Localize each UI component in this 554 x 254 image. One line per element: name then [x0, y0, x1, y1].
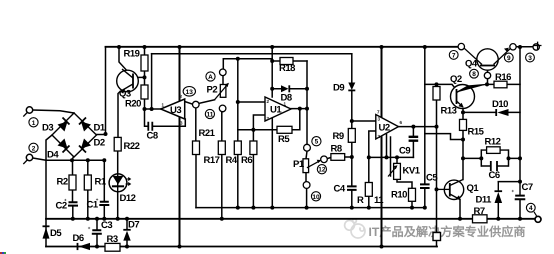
- potentiometer P1: [303, 159, 309, 173]
- wire R21 riser and lead: [195, 108, 197, 208]
- capacitor C6: [481, 165, 508, 167]
- wire U1 input upper: [238, 101, 265, 103]
- wire AC2 line y160: [33, 158, 105, 160]
- junction dots AC input net: [70, 158, 74, 162]
- wire R4 lead: [237, 155, 239, 208]
- node label circled 4: [526, 203, 535, 212]
- wire R20 bottom to U3 input: [145, 99, 161, 109]
- LED D12: [109, 174, 127, 192]
- wire top supply bus: [106, 46, 459, 48]
- wire bus A minus rail: [46, 218, 535, 220]
- wire Q1 emitter to bus A: [459, 200, 461, 219]
- svg-text:R19: R19: [124, 49, 140, 60]
- transistor Q3: [117, 70, 139, 92]
- diode D2: [81, 139, 91, 149]
- wire node13 to P2 wiper: [199, 100, 215, 104]
- svg-text:C8: C8: [147, 131, 158, 142]
- node 11 connector: [219, 105, 226, 112]
- junction dots U2 input network: [350, 119, 354, 123]
- resistor R2: [69, 175, 76, 190]
- wire collector vertical Q2-R15-Q1: [462, 107, 464, 180]
- svg-text:1: 1: [32, 120, 36, 127]
- svg-text:C4: C4: [334, 184, 346, 195]
- wire P2 top feed: [223, 59, 272, 69]
- resistor R12: [487, 147, 501, 154]
- wire R6 riser from P2 feed: [237, 59, 239, 141]
- wire C3 legs: [96, 219, 98, 247]
- svg-text:+: +: [512, 189, 515, 194]
- node label circled 2: [29, 143, 38, 152]
- wire R11 riser: [369, 131, 376, 208]
- svg-text:5: 5: [315, 139, 319, 146]
- diode D6: [77, 243, 79, 250]
- svg-text:C3: C3: [101, 220, 112, 231]
- svg-text:IT产品及解决方案专业供应商: IT产品及解决方案专业供应商: [369, 225, 526, 239]
- svg-text:R3: R3: [107, 234, 118, 245]
- svg-text:D3: D3: [42, 123, 53, 134]
- op-amp U2: [376, 115, 399, 140]
- svg-text:R15: R15: [468, 127, 485, 138]
- trimmer KV1: [394, 163, 401, 179]
- wire Q1 base long riser: [436, 84, 438, 246]
- op-amp U1: [265, 97, 291, 121]
- wire R6 lead: [252, 155, 254, 208]
- svg-text:Q1: Q1: [467, 183, 480, 194]
- wire C5 legs: [424, 188, 426, 208]
- svg-text:D9: D9: [333, 83, 344, 94]
- wire Q2 base from rail: [425, 84, 457, 90]
- svg-text:P2: P2: [207, 85, 218, 96]
- svg-text:R9: R9: [333, 131, 344, 142]
- wire R19 top lead: [144, 47, 146, 85]
- bridge rectifier frame: [52, 113, 97, 157]
- wire U2 long vertical rail: [381, 47, 383, 247]
- svg-text:3: 3: [528, 55, 532, 62]
- capacitor C8: [148, 122, 152, 131]
- wire bridge bottom corner stub: [72, 157, 74, 161]
- svg-text:11: 11: [374, 195, 384, 206]
- junction dots on bus C: [236, 206, 240, 210]
- wire D5 leg on left rail: [45, 219, 47, 247]
- capacitor C3: [92, 230, 102, 234]
- svg-text:P1: P1: [293, 159, 305, 170]
- node 9 connector: [510, 44, 516, 50]
- resistor R10: [409, 188, 416, 201]
- wire U1 output node: [291, 61, 307, 144]
- node label circled 7: [449, 51, 458, 60]
- wire U1 Vplus riser: [271, 47, 273, 97]
- wire Q3 emitter down to R22: [118, 92, 120, 138]
- junction dots on bus B: [95, 245, 99, 249]
- transistor Q2: [451, 85, 475, 109]
- resistor R7: [473, 215, 488, 223]
- resistor R5: [277, 126, 292, 133]
- node label circled 13: [183, 87, 195, 97]
- wire U2 output to Q1 base rail: [399, 126, 437, 128]
- wire P2 body risers: [222, 76, 224, 112]
- wire U2 pin riser a: [386, 135, 388, 158]
- terminal 1: [26, 107, 32, 113]
- resistor R9: [348, 129, 355, 143]
- junction dots on top supply bus: [117, 45, 121, 49]
- resistor R13: [433, 87, 440, 101]
- svg-text:R7: R7: [474, 206, 485, 217]
- node 8 connector: [484, 72, 490, 78]
- svg-text:R1: R1: [95, 177, 107, 188]
- wire C1 chain: [103, 160, 105, 219]
- node 7 connector: [458, 43, 464, 49]
- svg-text:R20: R20: [125, 99, 141, 110]
- wire R18 leads: [272, 60, 307, 62]
- svg-text:Q2: Q2: [450, 74, 462, 85]
- wire D8 leads: [272, 88, 307, 90]
- resistor R18: [280, 58, 293, 65]
- resistor R8: [331, 154, 345, 161]
- resistor R1: [84, 175, 91, 190]
- svg-text:11: 11: [206, 112, 213, 119]
- svg-text:A: A: [208, 74, 213, 81]
- capacitor C2: [68, 202, 78, 205]
- diode D7: [123, 229, 130, 231]
- wire R1 chain: [87, 160, 89, 219]
- svg-text:R6: R6: [241, 155, 252, 166]
- wire R2 chain: [72, 160, 74, 219]
- svg-text:U2: U2: [379, 123, 390, 134]
- terminal 2: [26, 154, 32, 160]
- wire riser inner line to U3 lower input: [151, 54, 153, 109]
- svg-text:C5: C5: [426, 173, 438, 184]
- wire D9 R9 C4 vertical: [351, 54, 353, 208]
- node 5 connector: [304, 144, 311, 151]
- node label circled 11: [205, 109, 214, 118]
- svg-text:R21: R21: [199, 128, 216, 139]
- svg-text:13: 13: [186, 89, 194, 96]
- wire W1 U2 feedback line: [369, 156, 414, 158]
- capacitor C1: [99, 202, 109, 205]
- svg-text:R12: R12: [485, 137, 501, 148]
- wire U1 input lower: [253, 115, 265, 141]
- wire D10 horizontal: [463, 111, 520, 113]
- svg-text:10: 10: [312, 194, 320, 201]
- svg-text:R18: R18: [279, 63, 295, 74]
- svg-text:D7: D7: [128, 220, 139, 231]
- wire right section rail x425: [424, 47, 426, 184]
- svg-text:KV1: KV1: [403, 166, 421, 177]
- node 13 connector: [193, 101, 200, 108]
- potentiometer P2: [220, 85, 226, 98]
- wire left rail bus to bridge plus: [105, 47, 107, 135]
- watermark logo: [345, 219, 365, 238]
- wire U2 plus input: [352, 120, 376, 122]
- node A connector: [220, 69, 227, 76]
- svg-text:D10: D10: [492, 99, 508, 110]
- node 12 connector: [321, 156, 328, 163]
- capacitor C5: [420, 184, 430, 188]
- svg-text:7: 7: [452, 52, 456, 59]
- svg-text:D11: D11: [476, 195, 493, 206]
- svg-text:D1: D1: [94, 123, 106, 134]
- svg-text:D8: D8: [281, 93, 292, 104]
- wire bus B bottom rail: [46, 246, 437, 248]
- wire node11 riser: [221, 111, 224, 113]
- diode D9: [348, 83, 355, 91]
- diode D5: [43, 225, 50, 227]
- wire C8 branch: [145, 109, 186, 126]
- wire KV1 top and bottom: [397, 157, 412, 207]
- svg-text:R22: R22: [124, 141, 140, 152]
- resistor R22: [114, 137, 121, 151]
- svg-text:R2: R2: [57, 177, 68, 188]
- svg-text:R10: R10: [391, 190, 407, 201]
- wire Q4 base chain: [487, 66, 489, 85]
- wire bridge minus corner down to bus A: [46, 135, 52, 219]
- node 10 connector: [303, 182, 310, 189]
- wire U2 output to C9: [412, 127, 414, 158]
- wire D11 legs: [497, 203, 499, 219]
- node label circled 5: [312, 137, 321, 146]
- resistor R19: [141, 55, 148, 71]
- wire U3 output to node13: [185, 102, 193, 105]
- node label circled 1: [29, 118, 38, 127]
- svg-text:+: +: [88, 225, 91, 230]
- wire U1 feedback line y130: [238, 109, 300, 130]
- svg-text:C6: C6: [489, 170, 500, 181]
- wire bridge plus corner to left rail: [97, 134, 106, 136]
- transistor Q1: [444, 180, 463, 199]
- junction dots on bus A: [71, 217, 75, 221]
- svg-text:4: 4: [529, 205, 533, 212]
- resistor R4: [234, 141, 241, 155]
- svg-text:R4: R4: [226, 155, 238, 166]
- wire R15 bottom left jog: [425, 134, 463, 140]
- svg-text:12: 12: [318, 167, 326, 174]
- resistor R3: [105, 243, 120, 251]
- wire U2 pin riser b to KV1 wiper: [390, 137, 392, 176]
- svg-text:D2: D2: [94, 138, 105, 149]
- node label circled 3: [526, 53, 535, 62]
- diode D10: [495, 109, 497, 116]
- svg-text:2: 2: [32, 145, 36, 152]
- wire R17 riser and lead: [221, 112, 223, 219]
- resistor R20: [141, 85, 148, 99]
- diode D3: [58, 122, 68, 132]
- resistor R21: [193, 141, 200, 155]
- op-amp U3: [161, 99, 185, 119]
- wire D11 top to right bus: [498, 181, 520, 183]
- svg-text:R17: R17: [204, 155, 220, 166]
- wire U1 Vminus pin riser to bus C: [271, 119, 273, 208]
- wire top-right bus segment node9 to terminal3: [516, 46, 533, 48]
- svg-text:R8: R8: [331, 144, 342, 155]
- junction dots right section: [435, 82, 439, 86]
- svg-text:Q4: Q4: [465, 59, 478, 70]
- wire node5 to P1: [306, 151, 307, 159]
- svg-text:C2: C2: [56, 201, 67, 212]
- junction dots U3 U1 networks: [143, 75, 147, 79]
- wire Q3 base: [133, 76, 145, 78]
- diode D8: [281, 85, 289, 92]
- transistor Q4: [477, 49, 498, 70]
- svg-text:D6: D6: [73, 233, 84, 244]
- fuse box on Q1 base riser: [433, 233, 441, 241]
- capacitor C9: [409, 137, 419, 141]
- wire AC1 to bridge top: [33, 110, 74, 113]
- svg-text:9: 9: [507, 55, 511, 62]
- svg-text:D4: D4: [47, 150, 59, 161]
- resistor R11: [365, 183, 372, 197]
- wire C7 legs: [519, 199, 521, 218]
- terminal 3 plus: [533, 44, 539, 50]
- node label circled 10: [311, 192, 320, 201]
- svg-text:R5: R5: [278, 134, 290, 145]
- svg-text:R: R: [357, 195, 364, 206]
- wire right vertical bus: [519, 47, 521, 182]
- svg-text:R13: R13: [441, 106, 457, 117]
- capacitor C7: [515, 196, 526, 200]
- svg-text:C9: C9: [399, 146, 410, 157]
- svg-text:U1: U1: [270, 105, 282, 116]
- wire R12C6 left rail: [463, 150, 481, 166]
- diode D4: [58, 139, 68, 149]
- wire R8 leads: [327, 157, 352, 159]
- wire bus C sub ground: [196, 207, 425, 209]
- diode D11: [495, 190, 503, 192]
- svg-text:R16: R16: [495, 72, 511, 83]
- svg-text:8: 8: [472, 71, 476, 78]
- svg-text:D12: D12: [120, 193, 136, 204]
- wire inner supply line y54: [152, 53, 352, 55]
- svg-text:C7: C7: [522, 182, 533, 193]
- wire Q3 collector: [119, 47, 130, 74]
- resistor R16: [494, 81, 507, 88]
- capacitor C4: [347, 186, 357, 190]
- terminal 4: [535, 216, 541, 222]
- svg-text:C1: C1: [87, 200, 99, 211]
- wire D12 to bus A: [117, 192, 119, 219]
- svg-text:U3: U3: [170, 105, 181, 116]
- node label circled A: [206, 72, 215, 81]
- node label circled 9: [504, 53, 513, 62]
- wire U3 long vertical rail: [179, 47, 181, 247]
- diode D1: [81, 122, 91, 132]
- wire D7 legs: [126, 219, 128, 247]
- resistor R6: [250, 141, 257, 155]
- resistor R15: [460, 119, 467, 130]
- resistor R17: [218, 141, 225, 155]
- node label circled 8: [470, 69, 479, 78]
- svg-text:D5: D5: [50, 228, 62, 239]
- wire R16 leads: [487, 83, 520, 85]
- wire P1 bottom to node10: [305, 173, 308, 208]
- node label circled 12: [317, 165, 326, 174]
- wire R22 to D12: [117, 151, 119, 174]
- wire R12C6 right rail: [509, 150, 521, 166]
- scan artifact bottom left corner color noise: [0, 252, 2, 254]
